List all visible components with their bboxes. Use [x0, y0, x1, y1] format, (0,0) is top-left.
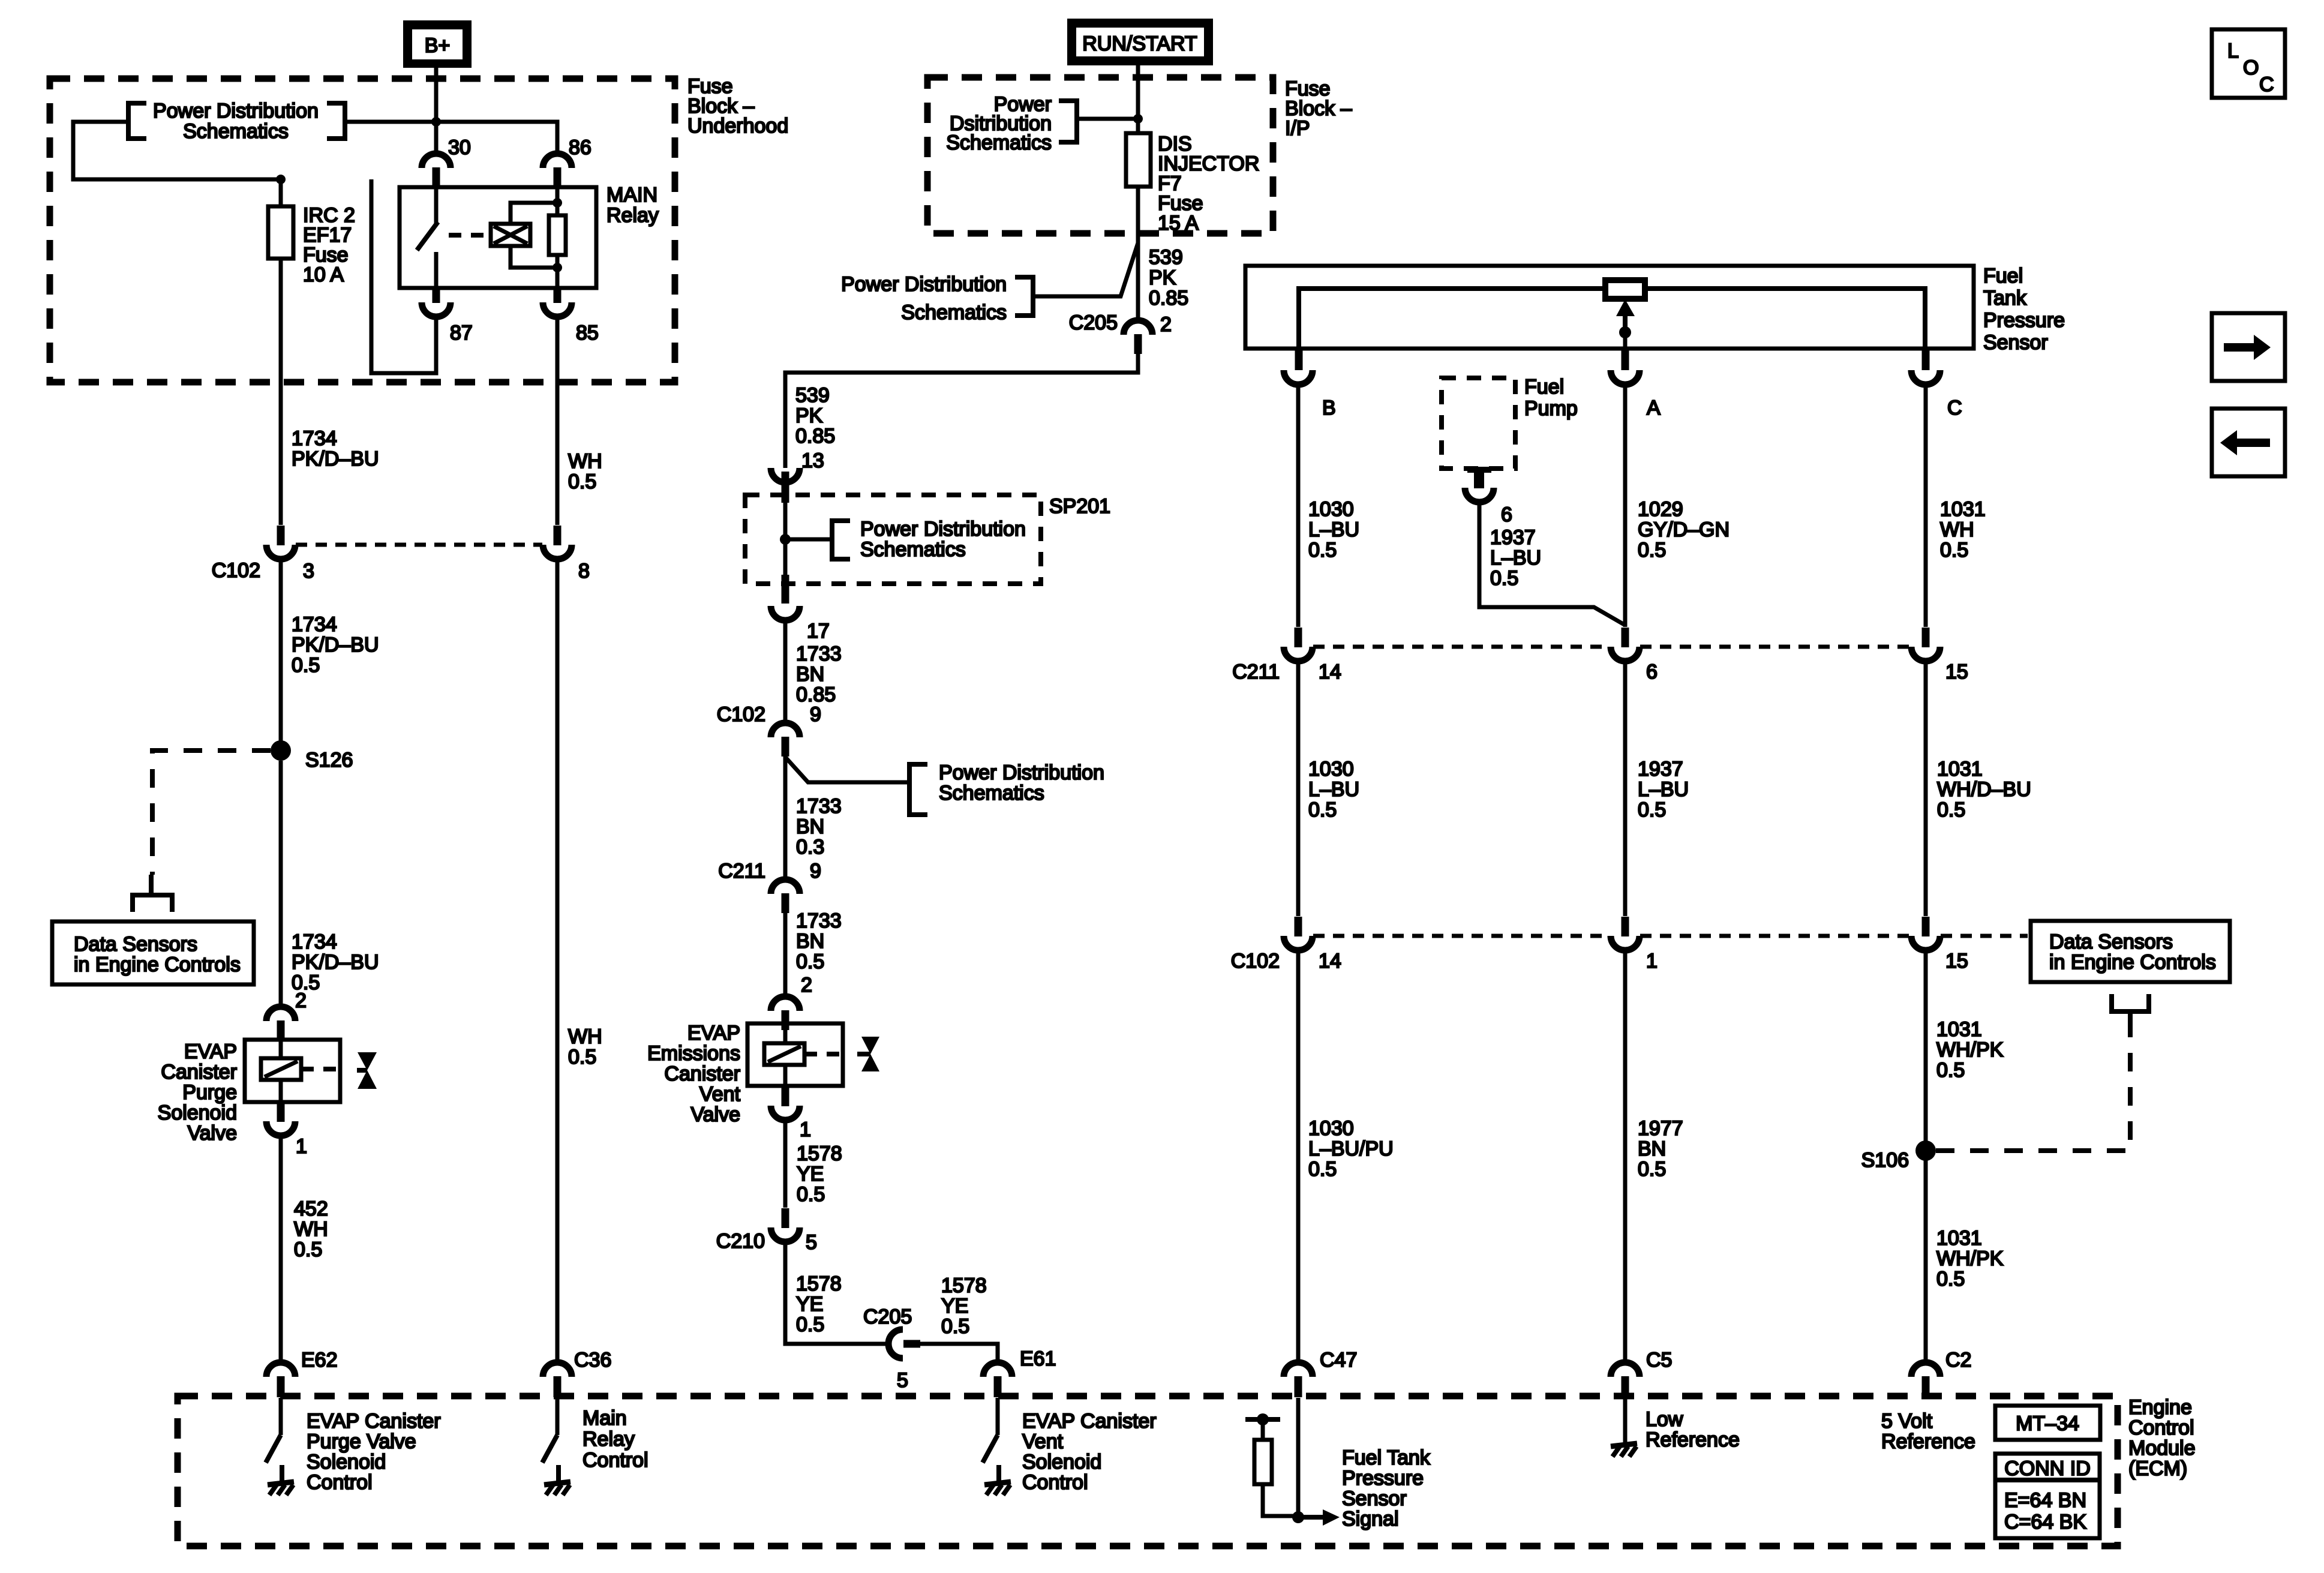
junction RUN/START node — [1133, 114, 1143, 124]
svg-text:86: 86 — [569, 136, 591, 159]
connector C205 pin 2 — [1124, 320, 1152, 354]
wire C210-5 to C205 — [785, 1242, 888, 1344]
svg-text:15: 15 — [1945, 950, 1968, 972]
label Fuse Block - I/P — [1285, 77, 1352, 140]
svg-text:C210: C210 — [716, 1230, 765, 1253]
svg-text:2: 2 — [295, 989, 307, 1012]
svg-text:539: 539 — [795, 384, 830, 407]
node Power Dsitribution Schematics (I/P) — [946, 93, 1077, 154]
svg-text:1: 1 — [1646, 950, 1658, 972]
svg-text:Emissions: Emissions — [647, 1042, 740, 1065]
svg-text:0.5: 0.5 — [1308, 798, 1337, 821]
svg-text:10 A: 10 A — [303, 263, 344, 286]
purge valve dashed link — [301, 1067, 341, 1071]
connector C210 pin 5 — [771, 1208, 800, 1242]
svg-text:Solenoid: Solenoid — [307, 1451, 386, 1473]
node Power Distribution Schematics (top left) — [128, 100, 345, 143]
svg-text:SP201: SP201 — [1049, 495, 1110, 518]
svg-text:87: 87 — [450, 322, 473, 344]
svg-text:14: 14 — [1319, 950, 1341, 972]
wire sensor C to C211-15 — [1924, 385, 1928, 627]
connector pin 13 (into SP201) — [771, 468, 800, 503]
wire label 1733 BN 0.5 — [796, 909, 842, 973]
svg-text:A: A — [1647, 397, 1661, 419]
svg-text:C211: C211 — [718, 860, 765, 882]
wire B+ to fuse block — [434, 68, 439, 154]
svg-text:EVAP: EVAP — [687, 1022, 740, 1044]
connector sensor pin A — [1611, 348, 1640, 385]
svg-text:C5: C5 — [1646, 1349, 1672, 1371]
svg-text:1578: 1578 — [797, 1142, 842, 1165]
wire label 452 WH 0.5 — [294, 1197, 328, 1261]
wire label 1578 YE 0.5 (third) — [941, 1274, 987, 1338]
power feed B+ — [403, 20, 472, 68]
label Fuel Tank Pressure Sensor — [1983, 265, 2065, 354]
svg-text:1734: 1734 — [292, 930, 337, 953]
svg-text:85: 85 — [576, 322, 599, 344]
svg-text:0.5: 0.5 — [1308, 1158, 1337, 1181]
svg-text:C36: C36 — [574, 1349, 611, 1371]
wire sensor A to C211-6 — [1623, 385, 1628, 627]
svg-text:Low: Low — [1646, 1408, 1683, 1431]
svg-text:WH: WH — [294, 1218, 328, 1241]
navigation arrow right box — [2212, 313, 2285, 381]
signal arrow — [1298, 1509, 1340, 1526]
connector E61 — [983, 1362, 1012, 1397]
label Fuel Tank Pressure Sensor Signal — [1342, 1446, 1431, 1530]
wire fuel pump to A column — [1479, 502, 1625, 625]
EVAP emissions canister vent valve L2 — [747, 1023, 843, 1086]
svg-text:Main: Main — [582, 1407, 627, 1430]
svg-text:Canister: Canister — [161, 1061, 237, 1083]
label DIS INJECTOR F7 Fuse 15 A — [1158, 133, 1259, 235]
svg-text:Pressure: Pressure — [1342, 1467, 1424, 1490]
ground (C5 low reference) — [1611, 1398, 1637, 1457]
connector vent valve pin 2 — [771, 996, 800, 1030]
fuse DIS INJECTOR F7 15A — [1126, 133, 1151, 187]
svg-text:0.5: 0.5 — [1490, 567, 1518, 590]
svg-text:in Engine Controls: in Engine Controls — [2049, 951, 2216, 974]
connector C2 — [1911, 1362, 1940, 1397]
svg-text:0.5: 0.5 — [1936, 1268, 1965, 1290]
connector C102 pin 15 — [1911, 917, 1940, 950]
connector pin 30 — [422, 154, 451, 187]
svg-text:L–BU/PU: L–BU/PU — [1308, 1137, 1394, 1160]
svg-text:0.5: 0.5 — [796, 1313, 824, 1336]
connector valve pin 2 — [266, 1007, 295, 1040]
wire C211-9 to vent valve pin 2 — [783, 913, 788, 996]
wire SP201 to C102 pin 9 — [783, 620, 788, 723]
svg-text:Reference: Reference — [1646, 1428, 1740, 1451]
wiper arrow — [1616, 299, 1635, 329]
connector C5 — [1611, 1362, 1640, 1397]
svg-text:WH: WH — [1940, 518, 1974, 541]
potentiometer wiper — [1605, 280, 1645, 299]
svg-text:C47: C47 — [1320, 1349, 1357, 1371]
svg-text:EVAP Canister: EVAP Canister — [307, 1410, 441, 1433]
svg-text:E=64 BN: E=64 BN — [2004, 1489, 2086, 1512]
svg-text:Relay: Relay — [606, 204, 659, 227]
svg-text:0.5: 0.5 — [1308, 539, 1337, 562]
svg-text:0.5: 0.5 — [294, 1238, 322, 1261]
svg-text:0.5: 0.5 — [1936, 1059, 1965, 1082]
svg-text:C: C — [2259, 73, 2274, 96]
reference box Data Sensors in Engine Controls (left) — [52, 921, 254, 984]
wire C102-3 to S126 — [279, 559, 283, 751]
wire fuse to C205 pin 2 — [1136, 187, 1140, 320]
connector C211 pin 15 — [1911, 628, 1940, 661]
node Power Distribution Schematics (branch) — [785, 757, 1104, 815]
svg-text:(ECM): (ECM) — [2128, 1457, 2187, 1480]
svg-text:0.5: 0.5 — [797, 1183, 825, 1206]
wire fuse IRC2 down to C102 pin 3 — [279, 259, 283, 525]
svg-text:I/P: I/P — [1285, 117, 1310, 140]
wire label 1031 WH/PK 0.5 (upper) — [1936, 1018, 2004, 1082]
svg-text:0.85: 0.85 — [1149, 287, 1188, 310]
dashed connector row C102 (right) — [1313, 934, 2028, 938]
svg-text:Canister: Canister — [664, 1062, 740, 1085]
wire C102-8 to C36 — [556, 559, 560, 1362]
svg-text:Valve: Valve — [187, 1122, 237, 1145]
wire label 1937 L-BU 0.5 (row2 A) — [1638, 758, 1689, 821]
svg-text:Signal: Signal — [1342, 1508, 1399, 1530]
label Fuel Pump — [1524, 376, 1578, 420]
relay switch contact 30-87 — [417, 186, 438, 289]
C47 input network wire — [1296, 1398, 1301, 1517]
svg-text:Pressure: Pressure — [1983, 309, 2065, 332]
svg-text:Module: Module — [2128, 1437, 2196, 1460]
svg-text:PK/D–BU: PK/D–BU — [292, 951, 379, 974]
svg-text:6: 6 — [1501, 503, 1512, 526]
vent valve pneumatic valve symbol — [857, 1037, 879, 1071]
connector sensor pin B — [1284, 348, 1313, 385]
junction C47 signal node — [1292, 1511, 1304, 1523]
svg-text:C2: C2 — [1945, 1349, 1971, 1371]
label Fuse Block - Underhood — [687, 75, 788, 137]
svg-text:C205: C205 — [1069, 311, 1118, 334]
wire label 1578 YE 0.5 (first) — [797, 1142, 842, 1206]
ground (E62 driver) — [268, 1465, 294, 1495]
svg-text:Underhood: Underhood — [687, 115, 788, 137]
svg-text:MAIN: MAIN — [606, 184, 657, 206]
node Power Distribution Schematics (SP201) — [785, 518, 1026, 561]
off-page bracket (right data sensors) — [2112, 994, 2149, 1029]
svg-text:BN: BN — [796, 663, 824, 686]
label MAIN Relay — [606, 184, 659, 227]
reference box Data Sensors in Engine Controls (right) — [2031, 921, 2230, 982]
fuse IRC 2 EF17 10A — [268, 206, 293, 259]
fuse block I/P box — [927, 77, 1273, 233]
svg-text:B: B — [1322, 397, 1336, 419]
engine control module box (dashed) — [178, 1396, 2118, 1546]
label EVAP Canister Purge Solenoid Valve — [158, 1040, 237, 1145]
svg-text:Pump: Pump — [1524, 397, 1578, 420]
svg-text:1937: 1937 — [1638, 758, 1683, 781]
svg-text:Control: Control — [1022, 1471, 1088, 1494]
label 5 Volt Reference — [1881, 1410, 1975, 1453]
svg-text:452: 452 — [294, 1197, 328, 1220]
wire label 1031 WH/PK 0.5 (lower) — [1936, 1227, 2004, 1290]
label Low Reference — [1646, 1408, 1740, 1451]
junction IRC2 fuse tap — [276, 175, 286, 184]
svg-text:0.5: 0.5 — [1937, 798, 1965, 821]
svg-text:8: 8 — [578, 560, 590, 583]
label Main Relay Control — [582, 1407, 648, 1472]
wire label 1029 GY/D-GN 0.5 (row1 A) — [1638, 498, 1730, 562]
svg-text:Power Distribution: Power Distribution — [153, 100, 319, 122]
E62 driver switch — [266, 1398, 281, 1463]
svg-text:WH/PK: WH/PK — [1936, 1038, 2004, 1061]
svg-text:WH/D–BU: WH/D–BU — [1937, 778, 2031, 801]
off-page bracket (left data sensors) — [133, 875, 172, 912]
connector C102 pin 1 — [1611, 917, 1640, 950]
svg-text:L–BU: L–BU — [1490, 547, 1541, 569]
svg-text:15: 15 — [1945, 661, 1968, 683]
label Engine Control Module (ECM) — [2128, 1396, 2196, 1480]
wire wiper to pin A — [1623, 332, 1628, 349]
svg-text:1578: 1578 — [796, 1272, 842, 1295]
wire vent valve to C210 — [783, 1120, 788, 1208]
svg-text:C102: C102 — [212, 559, 260, 582]
svg-text:Purge: Purge — [182, 1081, 237, 1104]
svg-text:B+: B+ — [425, 34, 451, 57]
relay coil box — [491, 224, 530, 246]
svg-text:E61: E61 — [1020, 1347, 1056, 1370]
svg-text:Engine: Engine — [2128, 1396, 2192, 1419]
reference box CONN ID — [1995, 1454, 2100, 1538]
connector C211 pin 6 — [1611, 628, 1640, 661]
svg-text:2: 2 — [1160, 313, 1172, 336]
relay actuation dashed link — [449, 233, 491, 238]
svg-text:Fuel: Fuel — [1524, 376, 1564, 398]
fuel tank pressure sensor box — [1245, 266, 1974, 349]
svg-text:L–BU: L–BU — [1638, 778, 1689, 801]
fuse block underhood box — [50, 79, 675, 382]
svg-text:EVAP Canister: EVAP Canister — [1022, 1410, 1157, 1433]
svg-text:0.5: 0.5 — [292, 654, 320, 677]
svg-text:1937: 1937 — [1490, 526, 1536, 549]
dashed connector row C102 left — [296, 543, 542, 547]
svg-text:Fuel Tank: Fuel Tank — [1342, 1446, 1431, 1469]
connector sensor pin C — [1911, 348, 1940, 385]
wire label 1030 L-BU 0.5 (row1 B) — [1308, 498, 1359, 562]
wire label 1733 BN 0.3 — [796, 795, 842, 858]
svg-text:1031: 1031 — [1937, 758, 1983, 781]
connector C36 — [543, 1362, 572, 1397]
wire C205-5 to E61 — [920, 1344, 998, 1362]
reference box MT-34 — [1995, 1406, 2100, 1440]
svg-text:0.5: 0.5 — [1940, 539, 1968, 562]
svg-text:Data Sensors: Data Sensors — [74, 933, 197, 956]
connector pin 17 (out of SP201) — [771, 575, 800, 620]
svg-text:2: 2 — [801, 974, 812, 996]
svg-text:Schematics: Schematics — [939, 782, 1044, 804]
svg-text:Sensor: Sensor — [1983, 331, 2048, 354]
node Power Distribution Schematics (C205 feed) — [841, 273, 1033, 324]
svg-text:Schematics: Schematics — [860, 538, 966, 561]
svg-text:0.5: 0.5 — [941, 1315, 969, 1338]
wire coil top to 86 branch — [511, 203, 557, 224]
svg-text:0.3: 0.3 — [796, 836, 824, 858]
svg-text:0.5: 0.5 — [1638, 1158, 1666, 1181]
wire C102-14 to C47 — [1296, 950, 1301, 1362]
connector C205 pin 5 — [888, 1329, 920, 1358]
splice S106 — [1915, 1140, 1936, 1161]
wire coil bottom to 85 branch — [511, 246, 557, 268]
svg-text:Reference: Reference — [1881, 1430, 1975, 1453]
wire valve pin1 to E62 — [279, 1136, 283, 1362]
svg-text:EVAP: EVAP — [184, 1040, 237, 1063]
connector C102 pin 14 — [1284, 917, 1313, 950]
svg-text:1030: 1030 — [1308, 1117, 1354, 1140]
wire label 1937 L-BU 0.5 (fuel pump) — [1490, 526, 1541, 590]
svg-text:Fuel: Fuel — [1983, 265, 2023, 287]
svg-text:YE: YE — [941, 1295, 968, 1317]
label IRC 2 EF17 Fuse 10 A — [303, 204, 355, 286]
svg-text:MT–34: MT–34 — [2016, 1412, 2079, 1435]
dashed link S126 to data sensors bracket — [152, 751, 271, 875]
label EVAP Emissions Canister Vent Valve — [647, 1022, 740, 1126]
svg-text:C=64 BK: C=64 BK — [2004, 1511, 2086, 1533]
connector pin 86 — [543, 154, 572, 187]
connector valve pin 1 — [266, 1103, 295, 1136]
svg-text:C211: C211 — [1232, 661, 1280, 683]
LOC reference box — [2212, 29, 2285, 98]
wire C211-14 to C102-14 — [1296, 661, 1301, 916]
label EVAP Canister Vent Solenoid Control — [1022, 1410, 1157, 1494]
svg-text:6: 6 — [1646, 661, 1658, 683]
connector C102 pin 3 — [266, 526, 295, 559]
connector C47 — [1284, 1362, 1313, 1397]
wire RUN/START to fuse — [1136, 65, 1140, 133]
navigation arrow left box — [2212, 409, 2285, 476]
svg-text:C102: C102 — [717, 703, 765, 726]
svg-text:L: L — [2227, 40, 2239, 62]
svg-text:YE: YE — [796, 1293, 823, 1316]
fuel pump box (dashed) — [1442, 378, 1515, 469]
svg-text:Vent: Vent — [699, 1083, 741, 1106]
svg-text:WH: WH — [568, 1025, 602, 1048]
svg-text:14: 14 — [1319, 661, 1341, 683]
svg-text:Control: Control — [307, 1471, 373, 1494]
pull-up rail tick — [1245, 1413, 1280, 1425]
svg-text:9: 9 — [810, 703, 821, 726]
svg-text:1030: 1030 — [1308, 498, 1354, 521]
svg-text:Data Sensors: Data Sensors — [2049, 930, 2173, 953]
svg-text:5: 5 — [806, 1231, 817, 1254]
svg-text:1: 1 — [800, 1118, 811, 1141]
svg-text:in Engine Controls: in Engine Controls — [74, 953, 241, 976]
wire C102-1 to C5 — [1623, 950, 1628, 1362]
svg-text:9: 9 — [810, 860, 821, 882]
svg-text:Relay: Relay — [582, 1428, 635, 1451]
connector C211 pin 9 — [771, 879, 800, 913]
wire C102-9 to C211-9 — [783, 757, 788, 879]
connector E62 — [266, 1362, 295, 1397]
ground (C36 driver) — [544, 1465, 571, 1495]
wire label 539 PK 0.85 (first) — [1149, 246, 1188, 310]
svg-text:Schematics: Schematics — [946, 131, 1052, 154]
dashed connector row C211 — [1313, 645, 1911, 649]
svg-text:BN: BN — [1638, 1137, 1666, 1160]
svg-text:1733: 1733 — [796, 909, 842, 932]
svg-text:Power Distribution: Power Distribution — [860, 518, 1026, 541]
connector vent valve pin 1 — [771, 1087, 800, 1120]
svg-text:WH/PK: WH/PK — [1936, 1247, 2004, 1270]
svg-text:1031: 1031 — [1936, 1227, 1982, 1250]
relay internal resistor — [549, 188, 566, 289]
svg-text:1030: 1030 — [1308, 758, 1354, 781]
vent valve dashed link — [804, 1052, 845, 1056]
svg-text:L–BU: L–BU — [1308, 518, 1359, 541]
wire label WH 0.5 (main relay ctrl upper) — [568, 450, 602, 493]
connector pin 87 — [422, 289, 451, 317]
splice pack SP201 box — [745, 495, 1041, 584]
wire label 1734 PK/D-BU 0.5 (third) — [292, 930, 379, 994]
svg-text:WH: WH — [568, 450, 602, 473]
purge valve pneumatic valve symbol — [357, 1052, 377, 1089]
wire C205-2 jog to splice column — [785, 354, 1138, 468]
svg-text:0.5: 0.5 — [568, 470, 596, 493]
wire label 1733 BN 0.85 — [796, 643, 842, 706]
wire label 1030 L-BU/PU 0.5 — [1308, 1117, 1394, 1181]
splice S126 — [271, 740, 291, 761]
svg-text:S126: S126 — [305, 749, 353, 772]
wire C211-6 to C102-1 — [1623, 661, 1628, 916]
svg-text:5: 5 — [897, 1369, 908, 1392]
svg-text:1031: 1031 — [1940, 498, 1986, 521]
svg-text:1734: 1734 — [292, 427, 337, 450]
wire bracket to RUN/START node — [1077, 117, 1138, 121]
svg-text:BN: BN — [796, 930, 824, 953]
junction relay coil top — [553, 198, 562, 208]
connector C102 pin 8 — [543, 526, 572, 559]
svg-text:Purge Valve: Purge Valve — [307, 1430, 416, 1453]
junction relay coil bottom — [553, 263, 562, 272]
junction wiper node — [1619, 326, 1631, 338]
svg-text:Power Distribution: Power Distribution — [841, 273, 1007, 296]
svg-text:YE: YE — [797, 1163, 824, 1185]
svg-text:3: 3 — [303, 560, 314, 583]
svg-text:1: 1 — [296, 1135, 307, 1158]
connector C211 pin 14 — [1284, 628, 1313, 661]
junction SP201 — [780, 534, 791, 545]
E61 driver switch — [983, 1398, 998, 1463]
wire label 1031 WH/D-BU 0.5 (row2 C) — [1937, 758, 2031, 821]
svg-text:Valve: Valve — [690, 1103, 740, 1126]
EVAP canister purge solenoid valve L1 — [245, 1040, 340, 1102]
C36 driver switch — [542, 1398, 557, 1463]
sensor potentiometer track — [1299, 289, 1925, 349]
svg-text:CONN ID: CONN ID — [2004, 1457, 2091, 1480]
svg-text:1733: 1733 — [796, 795, 842, 818]
svg-text:1734: 1734 — [292, 613, 337, 636]
svg-text:5 Volt: 5 Volt — [1881, 1410, 1933, 1433]
wire through SP201 — [783, 503, 788, 575]
svg-text:0.85: 0.85 — [795, 425, 835, 448]
wire tap to fuse IRC2 — [279, 179, 283, 206]
svg-text:C102: C102 — [1231, 950, 1280, 972]
wire label 1578 YE 0.5 (second) — [796, 1272, 842, 1336]
wire label 1734 PK/D-BU 0.5 (second) — [292, 613, 379, 677]
svg-text:Tank: Tank — [1983, 287, 2027, 310]
connector fuel pump pin 6 — [1465, 470, 1494, 502]
relay MAIN box — [400, 187, 596, 288]
dashed link S106 to data sensors bracket — [1936, 1029, 2130, 1151]
svg-text:0.5: 0.5 — [568, 1046, 596, 1068]
svg-text:PK: PK — [795, 404, 823, 427]
svg-text:13: 13 — [801, 449, 824, 472]
